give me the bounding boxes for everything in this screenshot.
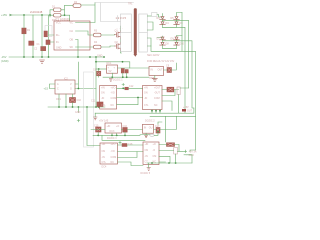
- svg-text:C12: C12: [129, 85, 134, 88]
- transistor Q1: [115, 31, 121, 40]
- svg-text:DC/DC 3: DC/DC 3: [107, 137, 117, 140]
- node junctions ground rail: [23, 56, 25, 58]
- wire gray top to transformer center tap: [95, 3, 134, 22]
- capacitor C19 polarized: [167, 143, 175, 147]
- wire rectifier row2 bottom: [163, 47, 177, 49]
- wire mid gnd rail: [48, 106, 105, 108]
- wire rectifier col2 row1: [176, 17, 178, 28]
- wire C3 bottom: [48, 45, 50, 58]
- svg-text:CM: CM: [153, 155, 157, 158]
- capacitor C17: [156, 128, 160, 134]
- diode D9: [174, 37, 180, 40]
- wire row3 gnd rail: [93, 134, 140, 136]
- wire feed down left: [87, 107, 100, 146]
- svg-text:DC3: DC3: [110, 130, 115, 133]
- fuse F1: [152, 13, 158, 17]
- capacitor C15: [96, 127, 101, 132]
- wire top feedback: [65, 5, 74, 7]
- diode D8: [160, 42, 166, 45]
- wire row1 in net: [96, 68, 107, 70]
- svg-text:+VO: +VO: [111, 143, 116, 146]
- node output minus: [184, 154, 187, 156]
- diode D3: [160, 17, 166, 20]
- svg-text:CTL: CTL: [102, 161, 107, 164]
- resistor R5: [44, 31, 47, 37]
- svg-text:FOR REGUL 5V 12V 15V: FOR REGUL 5V 12V 15V: [147, 60, 175, 63]
- wire dc bus line1: [181, 13, 183, 52]
- svg-text:CTL: CTL: [101, 104, 106, 107]
- svg-text:VC: VC: [70, 22, 74, 25]
- wire U3 gnd: [154, 76, 156, 79]
- opto isolator IC2: [55, 80, 75, 94]
- svg-text:IC2: IC2: [64, 78, 68, 81]
- ground symbol row4: [147, 168, 150, 171]
- wire rectifier row2 mid link: [163, 40, 177, 42]
- node junction U4 net: [137, 97, 139, 99]
- wire secondary taps right: [147, 22, 153, 46]
- wire C7 C8 drops: [123, 73, 127, 77]
- svg-text:+15: +15: [44, 87, 49, 91]
- capacitor C11: [97, 102, 103, 107]
- wire dc bus line4: [177, 41, 194, 108]
- svg-text:-IN: -IN: [145, 155, 148, 158]
- wire dc bus line2: [163, 27, 186, 113]
- svg-text:-OUT: -OUT: [154, 92, 160, 95]
- diode D2: [54, 14, 62, 18]
- svg-text:1 2 3 4 5: 1 2 3 4 5: [116, 16, 127, 20]
- svg-text:C17: C17: [155, 125, 160, 128]
- diode D6: [174, 22, 180, 25]
- svg-text:DC1: DC1: [107, 62, 112, 65]
- wire dc bus line3: [177, 20, 189, 88]
- resistor R3: [94, 33, 102, 37]
- node +15V arrow: [10, 14, 13, 16]
- capacitor C18: [122, 144, 127, 147]
- wire stub below rail: [77, 107, 79, 113]
- svg-text:NC: NC: [111, 104, 115, 107]
- wire U8 to U9 nets: [118, 145, 144, 158]
- node output plus: [184, 150, 187, 153]
- wire IC1 right pin B: [76, 46, 94, 48]
- node junction on +15V rail: [23, 14, 25, 16]
- wire R2 to pin: [76, 3, 96, 23]
- svg-text:-15V: -15V: [1, 55, 7, 59]
- wire bus to U9 feed: [190, 150, 196, 151]
- svg-text:(GND): (GND): [1, 59, 9, 63]
- node junctions row4 rail: [151, 162, 153, 164]
- svg-text:GND: GND: [56, 47, 62, 50]
- capacitor C7: [121, 69, 124, 74]
- wire U6 nets: [91, 129, 142, 131]
- wire dc bus line5: [151, 46, 196, 150]
- wire U9 right nets: [159, 145, 184, 164]
- svg-text:G: G: [70, 88, 72, 91]
- svg-text:-VO: -VO: [111, 150, 115, 153]
- svg-text:NC: NC: [111, 161, 115, 164]
- wire output rail A: [95, 108, 194, 113]
- svg-text:5V: 5V: [109, 70, 112, 73]
- transformer TR1 core tip: [133, 54, 137, 57]
- capacitor C2 polarized: [41, 47, 46, 51]
- wire rectifier row1 top: [157, 13, 182, 18]
- svg-text:ON: ON: [144, 92, 148, 95]
- svg-text:+IN: +IN: [144, 87, 148, 90]
- svg-text:+IN: +IN: [145, 143, 149, 146]
- wire diode cathodes: [61, 6, 65, 16]
- transformer TR1 core: [134, 8, 137, 54]
- wire U5 right nets: [162, 90, 179, 111]
- svg-text:+VO: +VO: [111, 87, 116, 90]
- svg-text:+IN: +IN: [102, 143, 106, 146]
- svg-text:COM: COM: [111, 156, 117, 159]
- node net cross: [77, 119, 80, 122]
- ground symbol: [40, 60, 45, 63]
- wire IC2 right pins: [75, 62, 96, 89]
- wire U4 to U5 low net: [117, 98, 138, 105]
- dc/dc converter U9: [143, 142, 159, 165]
- svg-text:C16: C16: [123, 125, 128, 128]
- op-amp IC1 SG3525: [54, 21, 90, 50]
- capacitor C8: [125, 70, 128, 74]
- wire row1 gnd rail: [103, 76, 149, 78]
- wire Q1 source to primary: [120, 39, 122, 42]
- wire Q1 drain to primary: [120, 26, 122, 31]
- dc/dc converter U8: [100, 143, 118, 164]
- wire secondary top tap: [147, 15, 151, 17]
- capacitor C6 input: [97, 71, 101, 76]
- wire IC1 right pin A: [76, 31, 94, 35]
- svg-text:TR1: TR1: [128, 3, 133, 6]
- svg-text:-IN: -IN: [144, 97, 147, 100]
- wire U2 bottom drop: [111, 73, 113, 77]
- voltage regulator U3: [149, 67, 164, 76]
- wire C14 net: [179, 88, 189, 113]
- svg-text:+OUT: +OUT: [154, 87, 161, 90]
- svg-text:DC/DC 2: DC/DC 2: [145, 120, 155, 123]
- svg-text:-VO: -VO: [111, 92, 115, 95]
- capacitor C9: [167, 68, 172, 73]
- wire U3 nets: [164, 63, 177, 70]
- svg-text:COM: COM: [111, 97, 117, 100]
- capacitor C3 polarized: [46, 40, 50, 45]
- node junctions mid rail: [58, 106, 60, 108]
- wire C6 drops: [98, 69, 100, 77]
- svg-text:2x1N4148: 2x1N4148: [30, 10, 43, 14]
- wire ground rail: [9, 56, 105, 58]
- svg-text:GND: GND: [189, 154, 195, 157]
- ground symbol U7: [145, 135, 148, 137]
- svg-text:C11: C11: [91, 100, 96, 103]
- resistor R1: [22, 28, 26, 34]
- svg-text:GND: GND: [97, 55, 103, 58]
- wire row1 top net: [96, 62, 130, 68]
- ground symbol mid: [94, 117, 97, 120]
- wire U7 bottom: [140, 133, 158, 135]
- wire U8 low net: [118, 162, 144, 166]
- wire U2 out net: [118, 67, 150, 69]
- node junction C12: [122, 87, 124, 89]
- node junction row1 in: [98, 68, 100, 70]
- module outline shield: [84, 72, 94, 147]
- wire U4 to U5 top net: [117, 87, 143, 89]
- svg-text:OUT: OUT: [187, 110, 193, 113]
- wire output rail B: [150, 115, 196, 117]
- svg-text:ON: ON: [102, 150, 106, 153]
- node junction IC2: [78, 88, 80, 90]
- wire +15V rail: [12, 14, 50, 16]
- svg-text:OB: OB: [70, 39, 74, 42]
- capacitor C13 polarized: [167, 87, 174, 92]
- wire output minus net: [187, 155, 192, 163]
- wire rectifier row1 bottom: [163, 26, 177, 28]
- ground symbol U3: [152, 78, 157, 81]
- wire feed vertical left: [95, 57, 97, 107]
- svg-text:ON: ON: [101, 92, 105, 95]
- voltage regulator U7: [142, 124, 153, 133]
- diode D5: [174, 17, 180, 20]
- svg-text:OUT: OUT: [158, 69, 164, 72]
- svg-text:C10: C10: [77, 99, 82, 102]
- wire gnd drop mid: [94, 113, 96, 117]
- svg-text:OA: OA: [70, 30, 74, 33]
- svg-text:COM: COM: [154, 97, 160, 100]
- wire row row3-4 link: [102, 135, 145, 140]
- node cross row2: [122, 83, 124, 85]
- wire rectifier col2 row2: [176, 40, 178, 49]
- transistor Q2: [115, 42, 121, 51]
- svg-text:IN: IN: [144, 127, 147, 130]
- capacitor C20 electrolytic: [174, 148, 178, 155]
- capacitor C4 body: [45, 26, 52, 37]
- wire rectifier col1 row2: [162, 40, 164, 49]
- wire IC1 left pin stubs: [49, 35, 54, 42]
- node junction U9: [168, 162, 170, 164]
- resistor R4: [94, 45, 102, 49]
- svg-text:DC/DC 5: DC/DC 5: [141, 172, 151, 175]
- wire row4 gnd rail: [147, 162, 192, 164]
- diode D1: [54, 8, 62, 12]
- svg-text:GND: GND: [75, 111, 81, 114]
- svg-text:ON: ON: [145, 149, 149, 152]
- svg-text:+IN: +IN: [101, 87, 105, 90]
- wire R1 bottom: [23, 34, 25, 57]
- svg-text:OK1: OK1: [56, 98, 61, 101]
- node junctions row3 rail: [97, 135, 99, 137]
- wire left vertical net: [48, 15, 50, 40]
- svg-text:SEC 2x15V: SEC 2x15V: [147, 54, 160, 57]
- ground symbol row1: [109, 79, 112, 81]
- wire C2 top: [41, 15, 43, 47]
- svg-text:-O: -O: [153, 149, 156, 152]
- svg-text:C15: C15: [94, 125, 99, 128]
- wire row3 to row4 bus: [158, 116, 166, 142]
- resistor R2: [73, 4, 81, 8]
- wire U5 bottom pins: [152, 110, 160, 114]
- transformer TR1 secondary winding: [139, 14, 148, 52]
- node junction row1 top: [95, 61, 97, 63]
- wire row3 drops: [98, 132, 125, 135]
- wire U7 nets: [154, 116, 177, 129]
- node junctions U5 bottom: [151, 110, 153, 112]
- svg-text:NC: NC: [154, 104, 158, 107]
- transformer TR1 primary winding: [121, 14, 132, 52]
- wire C2 bottom: [41, 51, 43, 57]
- svg-text:DC4: DC4: [102, 166, 107, 169]
- diode D7: [160, 37, 166, 40]
- capacitor C12: [125, 87, 129, 90]
- node junctions row1 rail: [111, 76, 113, 78]
- wire diode anodes: [50, 10, 54, 17]
- capacitor C1: [29, 41, 34, 45]
- wire C20 bottom drop: [175, 154, 177, 163]
- svg-text:-IN: -IN: [102, 156, 105, 159]
- wire R4 to Q2 gate: [101, 46, 115, 47]
- node junction U7: [157, 131, 159, 133]
- svg-text:. . . . .: . . . . .: [116, 27, 123, 30]
- capacitor C10 polarized: [70, 98, 76, 103]
- wire R3 to Q1 gate: [101, 34, 115, 37]
- svg-text:OU: OU: [149, 127, 153, 130]
- wire IC1 SYNC pin to rail: [76, 40, 79, 58]
- dc/dc converter U4: [100, 86, 117, 110]
- node junction diode input: [49, 14, 51, 16]
- svg-text:IN: IN: [151, 69, 154, 72]
- wire U4 to U5 mid net: [117, 97, 143, 99]
- wire rectifier col1 row1: [162, 19, 164, 27]
- wire rectifier row1 mid link: [163, 19, 177, 21]
- wire to IC1 top pin: [65, 15, 70, 21]
- diode D4: [160, 22, 166, 25]
- svg-text:+O: +O: [116, 125, 119, 128]
- dc/dc converter U6: [105, 123, 122, 133]
- node junction diode output: [64, 14, 66, 16]
- svg-text:-IN: -IN: [101, 97, 104, 100]
- svg-text:CTL: CTL: [144, 104, 149, 107]
- svg-text:IN+: IN+: [56, 34, 60, 37]
- svg-text:VCC: VCC: [56, 22, 61, 25]
- svg-text:C: C: [57, 88, 59, 91]
- wire IC2 left pins: [50, 84, 56, 89]
- capacitor C14 electrolytic: [177, 87, 180, 95]
- jumper oval: [150, 134, 154, 136]
- diode D10: [174, 42, 180, 45]
- dc/dc converter U5: [143, 86, 163, 110]
- node junction on +15V rail: [41, 14, 43, 16]
- svg-text:+15V: +15V: [1, 13, 7, 17]
- capacitor C16: [123, 128, 128, 133]
- svg-text:+5V 1A5: +5V 1A5: [99, 120, 109, 123]
- wire gnd drop row4: [148, 163, 150, 168]
- connector output J1: [182, 109, 186, 112]
- wire R1 top: [23, 15, 25, 28]
- wire IC2 bottom drops: [59, 94, 73, 107]
- wire rectifier row2 top: [157, 36, 182, 38]
- wire C1 top: [32, 15, 34, 41]
- svg-text:+IN: +IN: [107, 125, 111, 128]
- wire C1 bottom: [32, 45, 34, 57]
- node cross row4: [119, 141, 121, 143]
- svg-text:DC/DC 1: DC/DC 1: [113, 79, 123, 82]
- svg-text:+O: +O: [153, 143, 156, 146]
- svg-text:IN-: IN-: [56, 41, 59, 44]
- svg-text:C18: C18: [128, 143, 133, 146]
- svg-text:SD: SD: [70, 46, 74, 49]
- wire Q2 source to primary: [121, 51, 122, 54]
- dc/dc converter U2: [107, 65, 118, 73]
